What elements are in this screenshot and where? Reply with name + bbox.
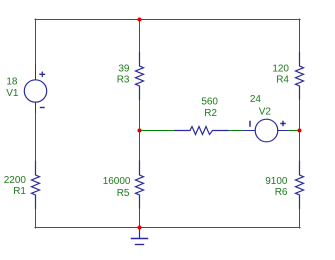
resistor R1 bbox=[32, 162, 40, 209]
wire left vertical upper bbox=[35, 19, 37, 65]
voltage source V2 bbox=[243, 119, 288, 142]
wire middle vertical lower bbox=[139, 208, 141, 228]
svg-text:R1: R1 bbox=[13, 186, 26, 197]
wire R2 left segment bbox=[140, 130, 176, 132]
wire bottom horizontal bbox=[35, 227, 300, 229]
wire V2 to right node bbox=[288, 130, 300, 132]
wire left vertical lower bbox=[35, 209, 37, 229]
wire left vertical middle bbox=[35, 113, 37, 162]
svg-text:9100: 9100 bbox=[265, 176, 288, 187]
wire right vertical lower bbox=[299, 209, 301, 229]
svg-text:V2: V2 bbox=[259, 107, 272, 118]
wire right vertical middle bbox=[299, 99, 301, 162]
node junction right (V2 output) bbox=[298, 129, 302, 133]
svg-text:39: 39 bbox=[118, 64, 130, 75]
wire right vertical upper bbox=[299, 19, 301, 53]
ground bbox=[132, 228, 148, 245]
svg-text:120: 120 bbox=[272, 64, 289, 75]
wire top horizontal bbox=[35, 19, 300, 21]
svg-text:18: 18 bbox=[6, 77, 18, 88]
node junction bottom (ground) bbox=[138, 226, 142, 230]
node junction top middle bbox=[138, 18, 142, 22]
svg-text:R3: R3 bbox=[117, 75, 130, 86]
svg-text:R2: R2 bbox=[204, 108, 217, 119]
wire middle vertical upper bbox=[139, 19, 141, 53]
node junction middle (R2 tap) bbox=[138, 129, 142, 133]
resistor R3 bbox=[136, 53, 144, 100]
resistor R5 bbox=[136, 161, 144, 208]
svg-text:R6: R6 bbox=[275, 187, 288, 198]
wire R2 to V2 segment bbox=[228, 130, 243, 132]
resistor R6 bbox=[296, 162, 304, 209]
svg-text:24: 24 bbox=[250, 94, 262, 105]
svg-text:560: 560 bbox=[201, 97, 218, 108]
svg-text:16000: 16000 bbox=[103, 176, 131, 187]
wire middle vertical center bbox=[139, 100, 141, 162]
svg-text:R5: R5 bbox=[117, 188, 130, 199]
svg-text:2200: 2200 bbox=[4, 175, 27, 186]
svg-text:R4: R4 bbox=[276, 75, 289, 86]
resistor R4 bbox=[296, 53, 304, 100]
resistor R2 bbox=[175, 127, 228, 135]
svg-text:V1: V1 bbox=[6, 88, 19, 99]
voltage source V1 bbox=[24, 65, 46, 113]
